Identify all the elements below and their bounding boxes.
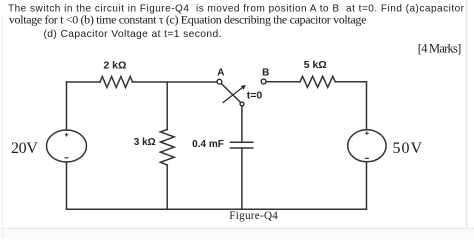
voltage source 20V (ellipse) bbox=[47, 130, 87, 162]
svg-text:5 kΩ: 5 kΩ bbox=[304, 59, 327, 71]
svg-text:2 kΩ: 2 kΩ bbox=[103, 60, 126, 72]
polarity + of 20V bbox=[65, 133, 69, 137]
svg-text:(d) Capacitor Voltage at t=1 s: (d) Capacitor Voltage at t=1 second. bbox=[44, 29, 222, 40]
polarity + of 50V bbox=[365, 131, 369, 135]
wire: middle branch top (rail to 3k) bbox=[166, 82, 168, 130]
wire: bottom rail bbox=[67, 208, 367, 210]
wire: top rail left segment bbox=[67, 81, 101, 83]
wire: left branch vertical bottom bbox=[66, 162, 68, 209]
svg-text:A: A bbox=[217, 68, 224, 79]
wire: switch B to 5k resistor bbox=[266, 81, 300, 83]
switch terminal A (open circle) bbox=[217, 79, 222, 84]
wire: left branch vertical top (rail to 20V source) bbox=[66, 82, 68, 130]
wire: top rail to switch terminal A bbox=[133, 81, 218, 83]
polarity - of 20V bbox=[65, 157, 69, 159]
switch arm (A to pivot) bbox=[221, 83, 241, 102]
wire: middle branch bottom bbox=[166, 165, 168, 209]
switch pivot (open circle) bbox=[240, 102, 244, 106]
svg-text:[4 Marks]: [4 Marks] bbox=[418, 41, 462, 55]
resistor R 3k (vertical zigzag) bbox=[160, 130, 174, 166]
svg-text:t=0: t=0 bbox=[247, 90, 263, 102]
voltage source 50V (ellipse) bbox=[348, 130, 386, 162]
switch terminal B (open circle) bbox=[261, 79, 266, 84]
switch arrow shaft bbox=[223, 88, 243, 103]
svg-text:voltage for t <0 (b) time cons: voltage for t <0 (b) time constant τ (c)… bbox=[9, 12, 367, 26]
svg-text:3 kΩ: 3 kΩ bbox=[134, 137, 156, 148]
resistor R 2k (zigzag) bbox=[100, 77, 133, 88]
switch arrow head bbox=[241, 85, 246, 90]
wire: right branch vertical bottom bbox=[366, 162, 368, 210]
svg-text:50V: 50V bbox=[393, 140, 423, 157]
resistor R 5k (zigzag) bbox=[300, 76, 335, 87]
polarity - of 50V bbox=[365, 157, 369, 159]
wire: capacitor branch (pivot to top plate) bbox=[241, 106, 243, 143]
faint page artifact: horizontal rule near bottom bbox=[0, 230, 474, 240]
svg-text:20V: 20V bbox=[11, 140, 38, 157]
capacitor C 0.4mF top plate bbox=[231, 141, 253, 143]
wire: capacitor branch bottom bbox=[241, 148, 243, 209]
svg-text:B: B bbox=[262, 68, 269, 79]
faint page artifact: left edge rule bbox=[2, 14, 4, 239]
faint page artifact: vertical rule right side bbox=[466, 0, 468, 239]
capacitor C 0.4mF bottom plate bbox=[231, 147, 253, 149]
wire: top rail right segment with corner down bbox=[335, 82, 366, 130]
svg-text:0.4 mF: 0.4 mF bbox=[192, 139, 224, 150]
svg-text:Figure-Q4: Figure-Q4 bbox=[229, 210, 278, 222]
